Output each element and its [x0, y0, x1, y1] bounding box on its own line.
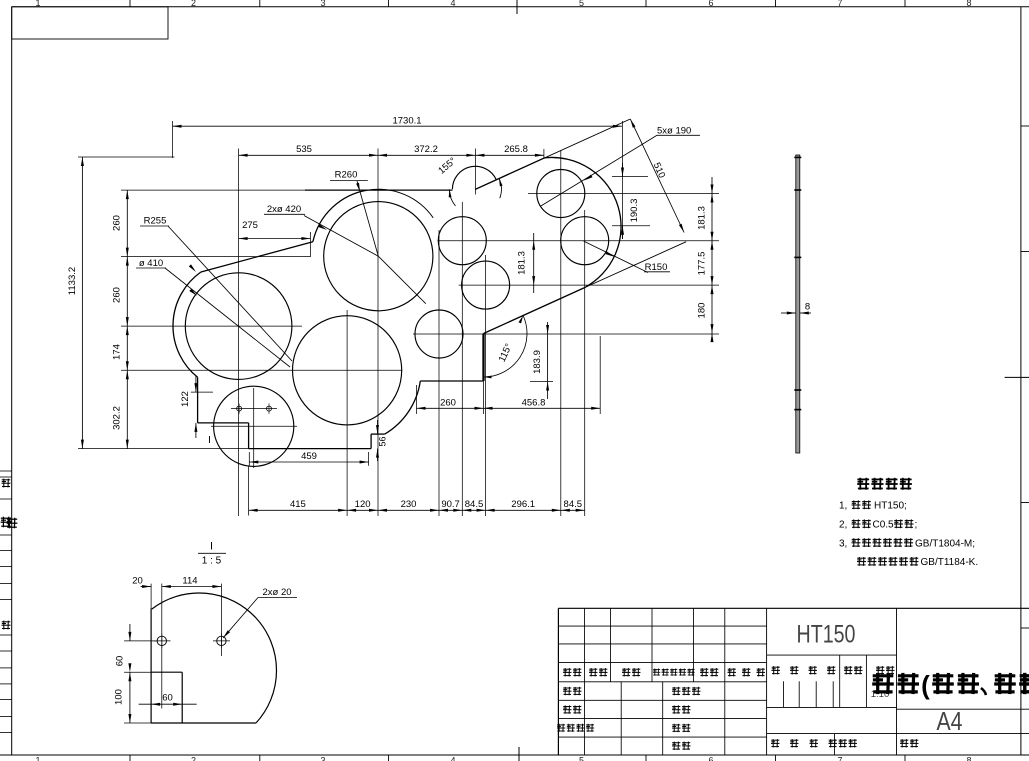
svg-text:HT150;: HT150;	[874, 501, 907, 512]
svg-text:HT150: HT150	[797, 621, 856, 649]
svg-text:R150: R150	[645, 262, 668, 273]
svg-text:;: ;	[915, 520, 918, 531]
svg-text:260: 260	[112, 287, 123, 303]
svg-text:4: 4	[450, 0, 455, 8]
svg-text:GB/T1804-M;: GB/T1804-M;	[915, 538, 975, 549]
svg-text:5: 5	[579, 0, 584, 8]
svg-text:8: 8	[966, 0, 971, 8]
svg-text:415: 415	[290, 499, 306, 510]
svg-text:1,: 1,	[839, 501, 847, 512]
svg-text:1730.1: 1730.1	[392, 116, 421, 127]
svg-text:181.3: 181.3	[697, 206, 708, 230]
svg-text:120: 120	[355, 499, 371, 510]
svg-text:(: (	[921, 670, 930, 700]
svg-text:5: 5	[579, 756, 584, 761]
svg-text:7: 7	[837, 756, 842, 761]
svg-text:183.9: 183.9	[532, 350, 543, 374]
svg-text:GB/T1184-K.: GB/T1184-K.	[921, 557, 979, 568]
svg-text:260: 260	[112, 215, 123, 231]
svg-text:20: 20	[132, 576, 143, 587]
svg-text:100: 100	[114, 689, 125, 705]
svg-text:456.8: 456.8	[522, 398, 546, 409]
svg-text:302.2: 302.2	[112, 406, 123, 430]
svg-text:265.8: 265.8	[504, 144, 528, 155]
svg-text:2,: 2,	[839, 520, 847, 531]
svg-text:8: 8	[966, 756, 971, 761]
svg-text:260: 260	[440, 398, 456, 409]
svg-text:230: 230	[401, 499, 417, 510]
svg-text:4: 4	[450, 756, 455, 761]
svg-text:5xø 190: 5xø 190	[657, 125, 691, 136]
svg-text:459: 459	[301, 451, 317, 462]
svg-text:ø 410: ø 410	[139, 258, 163, 269]
svg-text:190.3: 190.3	[629, 199, 640, 223]
svg-text:181.3: 181.3	[517, 251, 528, 275]
svg-text:R260: R260	[335, 170, 358, 181]
svg-text:84.5: 84.5	[465, 499, 484, 510]
svg-text:A4: A4	[937, 706, 963, 736]
svg-text:1133.2: 1133.2	[67, 267, 78, 295]
svg-text:60: 60	[162, 693, 173, 704]
svg-text:2xø 420: 2xø 420	[267, 204, 301, 215]
svg-text:C0.5: C0.5	[873, 520, 895, 531]
svg-text:R255: R255	[144, 216, 167, 227]
svg-text:174: 174	[112, 344, 123, 360]
svg-text:6: 6	[708, 756, 713, 761]
svg-text:84.5: 84.5	[564, 499, 583, 510]
svg-text:177.5: 177.5	[697, 252, 708, 276]
svg-text:114: 114	[182, 576, 197, 587]
svg-text:3: 3	[320, 0, 325, 8]
svg-text:I: I	[208, 434, 211, 446]
svg-text:56: 56	[378, 436, 388, 446]
svg-text:3: 3	[320, 756, 325, 761]
svg-text:6: 6	[708, 0, 713, 8]
svg-text:2: 2	[191, 756, 196, 761]
svg-text:372.2: 372.2	[414, 144, 438, 155]
svg-text:7: 7	[837, 0, 842, 8]
svg-text:296.1: 296.1	[511, 499, 535, 510]
svg-text:90.7: 90.7	[441, 499, 460, 510]
svg-text:8: 8	[805, 302, 810, 313]
svg-text:122: 122	[180, 391, 191, 407]
svg-text:2xø 20: 2xø 20	[262, 587, 291, 598]
svg-text:60: 60	[115, 656, 126, 667]
svg-text:I: I	[210, 541, 213, 553]
svg-text:275: 275	[242, 220, 258, 231]
svg-text:1 : 5: 1 : 5	[202, 556, 222, 567]
svg-text:3,: 3,	[839, 538, 847, 549]
svg-text:535: 535	[296, 144, 312, 155]
svg-text:2: 2	[191, 0, 196, 8]
svg-text:1: 1	[35, 756, 40, 761]
svg-text:180: 180	[697, 303, 708, 319]
